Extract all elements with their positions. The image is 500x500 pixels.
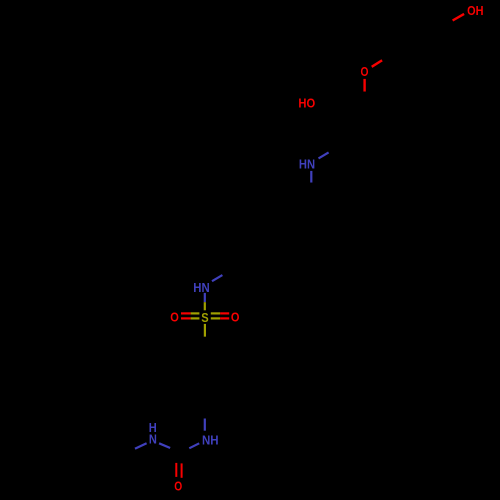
S=O right double bond lower: yellow half (211, 317, 220, 319)
svg-text:HO: HO (298, 96, 315, 111)
bond N4-C6 black half (170, 448, 180, 454)
svg-text:NH: NH (202, 433, 219, 448)
svg-text:OH: OH (467, 3, 483, 18)
bond N2-S yellow half (204, 302, 206, 310)
S=O right double bond lower: red half (220, 317, 229, 319)
bond C3-N1 black half (329, 144, 345, 153)
S=O left double bond lower: red half (181, 317, 191, 319)
bond O-C1 red half (363, 79, 365, 92)
S=O left double bond lower: yellow half (191, 317, 200, 319)
bond N3-C6 black half (180, 448, 189, 453)
bond ring1-O ether black half (382, 57, 390, 60)
bond O-C1 black half (364, 92, 366, 109)
C6=O7 double bond left red line (175, 463, 177, 477)
svg-text:HN: HN (193, 280, 209, 295)
S=O right double bond upper: red half (220, 312, 229, 314)
bond C-OH black half (ring1 to phenol O) (444, 21, 453, 26)
bond C3-N1 blue half (319, 152, 329, 158)
bond N1-C4 blue half (310, 171, 312, 183)
svg-text:O: O (170, 310, 179, 325)
C6=O7 double bond right red line (181, 463, 183, 477)
bond C5-N2 blue half (212, 275, 222, 281)
bond C2-C3 (341, 124, 345, 144)
bond S-ring2 black half (204, 337, 206, 348)
svg-text:HN: HN (299, 157, 315, 172)
bond C1-C2 (341, 109, 365, 124)
benzene ring 2 (black, invisible) (178, 348, 232, 410)
S=O right double bond upper: yellow half (211, 312, 220, 314)
bond N4-C6 blue half (159, 443, 170, 448)
bond ring1-O ether red half (372, 60, 382, 67)
bond C2-OH (hidden by label) (322, 110, 341, 124)
bond ring2-N3 black half (204, 410, 206, 419)
svg-text:O: O (174, 479, 182, 494)
bond S-ring2 yellow half (204, 324, 206, 337)
bond ring2-N3 blue half (204, 419, 206, 431)
bond C-OH red half (453, 14, 465, 21)
bond C5-N2 black half (222, 263, 239, 275)
chain C4-V1-V2-C5 (black) (239, 202, 311, 263)
svg-text:O: O (361, 64, 369, 79)
svg-text:S: S (201, 310, 209, 325)
bond N3-C6 blue half (189, 443, 199, 448)
bond N4-CH3 blue half (135, 443, 147, 448)
bond N1-C4 black half (310, 183, 312, 202)
S=O left double bond upper: yellow half (191, 312, 200, 314)
bond N2-S blue half (204, 293, 206, 302)
bond N4-CH3 black half (117, 449, 135, 459)
benzene ring 1 (top-right phenol ring, black bonds invisible) (390, 11, 444, 73)
S=O left double bond upper: red half (181, 312, 191, 314)
svg-text:N: N (149, 432, 157, 447)
svg-text:O: O (231, 310, 240, 325)
